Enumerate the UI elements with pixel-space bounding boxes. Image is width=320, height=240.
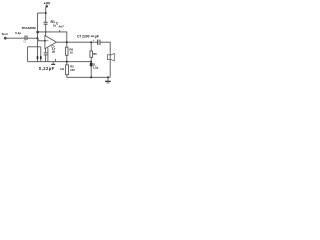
input terminal (4, 37, 6, 39)
wire supply vertical (45, 7, 47, 22)
wire input (7, 37, 25, 39)
wire pin below op-amp right (47, 48, 49, 62)
svg-text:1Ω: 1Ω (60, 67, 65, 71)
capacitor input-shunt right leg (40, 47, 42, 62)
speaker LS (107, 55, 110, 60)
wire input stub inside op-amp (45, 40, 48, 42)
label R1 1k (51, 20, 57, 27)
svg-text:10: 10 (70, 51, 74, 55)
svg-text:4n7: 4n7 (59, 25, 65, 29)
label C 4n7 (56, 22, 64, 29)
node rail R6 (66, 61, 68, 63)
node rail bottom right column (90, 77, 92, 79)
ground rail mid (28, 61, 92, 63)
wire input to junction (27, 37, 37, 39)
supply label +9V (44, 2, 51, 8)
wire left drop to ground rail (27, 47, 29, 62)
label R6 (69, 48, 73, 55)
capacitor C4 below op-amp left (45, 49, 47, 53)
node supply tee (45, 12, 47, 14)
wire supply continues into op-amp (45, 25, 47, 37)
wire output right (100, 42, 110, 54)
svg-text:TBA820M: TBA820M (22, 26, 37, 30)
svg-text:µF: µF (95, 34, 99, 38)
capacitor C1 input coupling (25, 35, 28, 40)
svg-text:R5: R5 (93, 52, 97, 56)
op-amp U1 triangle (45, 36, 57, 49)
ground symbol bottom (107, 77, 109, 80)
wire speaker down (109, 60, 111, 78)
node feedback/supply cross (45, 31, 46, 32)
label C5 4,7u (51, 44, 56, 53)
node rail right column mid (90, 61, 92, 63)
capacitor C8 blob on right column (90, 63, 93, 66)
wire lower horizontal (28, 46, 41, 48)
svg-text:C7 2200: C7 2200 (77, 35, 90, 39)
node output right branch (90, 41, 92, 43)
wire output (56, 41, 97, 43)
svg-text:1,2µ: 1,2µ (93, 66, 99, 70)
ground symbol mid (52, 62, 54, 64)
wire input lower branch (37, 38, 39, 47)
node ground bottom (107, 77, 109, 79)
svg-text:0,22µF: 0,22µF (39, 66, 55, 71)
wire step to op-amp input (38, 38, 45, 41)
resistor R7 column lower (66, 62, 68, 66)
svg-text:100: 100 (70, 68, 75, 72)
node output feedback (66, 41, 68, 43)
ground rail bottom (67, 76, 110, 78)
svg-text:Test: Test (2, 32, 8, 36)
wire tick under label (59, 30, 61, 32)
resistor R5 right column (90, 42, 92, 77)
capacitor input-shunt left leg (37, 47, 39, 62)
node feedback left (36, 31, 39, 33)
label C8 (93, 62, 99, 69)
wire feedback horizontal (38, 32, 67, 42)
capacitor right plate blob (40, 56, 42, 59)
label R7 (70, 65, 75, 72)
label C7 2200uF (77, 34, 99, 42)
svg-text:+9V: +9V (44, 2, 51, 6)
capacitor left plate blob (37, 56, 39, 59)
wire left vertical (bias) (37, 13, 39, 38)
node op-amp input (44, 40, 46, 42)
wire branch to left (38, 12, 46, 14)
resistor R6 column upper (66, 42, 68, 47)
wire stub near vertex (55, 59, 57, 62)
capacitor C7 series output (97, 40, 100, 45)
svg-text:0,1µ: 0,1µ (15, 31, 21, 35)
resistor R1 on supply line (44, 22, 48, 25)
node input junction (37, 37, 39, 39)
